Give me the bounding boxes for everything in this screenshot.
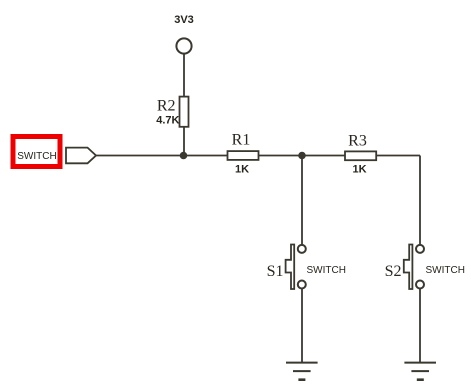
wire tag to R1 bbox=[96, 155, 228, 157]
ground (S2) bbox=[404, 363, 436, 380]
switch S1 bottom contact bbox=[298, 281, 306, 289]
svg-text:SWITCH: SWITCH bbox=[426, 265, 465, 276]
connector tag SWITCH bbox=[66, 148, 96, 164]
wire R2 to node bbox=[183, 127, 185, 156]
net label SWITCH red highlight box bbox=[13, 137, 60, 167]
wire corner down to S2 bbox=[419, 156, 421, 246]
resistor R1 bbox=[228, 151, 259, 160]
wire power to R2 bbox=[183, 54, 185, 97]
junction node at R2 bbox=[180, 152, 188, 160]
wire R1 to R3 bbox=[259, 155, 346, 157]
switch S2 top contact bbox=[416, 245, 424, 253]
wire node down to S1 bbox=[301, 156, 303, 246]
svg-text:3V3: 3V3 bbox=[174, 14, 194, 26]
svg-text:S2: S2 bbox=[385, 263, 402, 280]
junction node at S1 branch bbox=[298, 152, 306, 160]
wire S1 to ground bbox=[301, 289, 303, 362]
wire R3 to corner bbox=[376, 155, 420, 157]
svg-text:4.7K: 4.7K bbox=[156, 115, 179, 127]
svg-text:SWITCH: SWITCH bbox=[17, 151, 56, 162]
resistor R2 bbox=[180, 97, 189, 127]
svg-text:SWITCH: SWITCH bbox=[307, 265, 346, 276]
svg-text:1K: 1K bbox=[352, 164, 366, 176]
svg-text:S1: S1 bbox=[267, 263, 284, 280]
svg-text:R2: R2 bbox=[157, 98, 176, 115]
power symbol circle bbox=[176, 38, 191, 53]
resistor R3 bbox=[345, 151, 376, 160]
switch S1 top contact bbox=[298, 245, 306, 253]
svg-text:R3: R3 bbox=[348, 133, 367, 150]
switch S1 actuator bbox=[286, 245, 295, 290]
svg-text:1K: 1K bbox=[235, 164, 249, 176]
ground (S1) bbox=[286, 363, 318, 380]
switch S2 bottom contact bbox=[416, 281, 424, 289]
switch S2 actuator bbox=[404, 245, 413, 290]
wire S2 to ground bbox=[419, 289, 421, 362]
svg-text:R1: R1 bbox=[232, 132, 251, 149]
